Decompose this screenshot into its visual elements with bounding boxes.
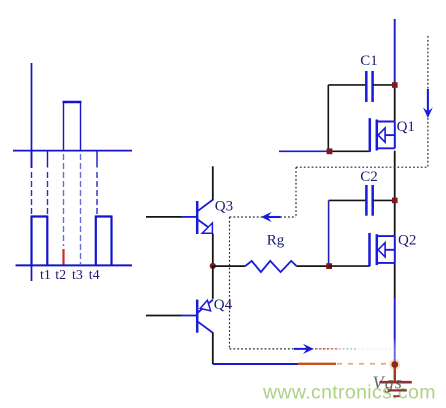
svg-text:Q3: Q3: [215, 199, 233, 215]
svg-text:Q2: Q2: [398, 233, 416, 249]
node: C1-drain junction: [392, 82, 398, 88]
waveform bottom horizontal axis: [16, 264, 133, 266]
t2 dashed construction line: [63, 154, 65, 246]
t4 axis tick solid: [96, 151, 98, 168]
waveform top vertical axis: [31, 63, 33, 168]
node: Rg-C2-gate junction: [326, 263, 332, 269]
t1 axis tick solid: [47, 151, 49, 168]
transistor Q3 (NPN): [146, 166, 213, 266]
transistor Q4 (PNP): [146, 266, 213, 364]
wire: main vertical black Q1 source to Q2 drain: [394, 151, 396, 237]
svg-text:t4: t4: [89, 268, 100, 283]
wire: junction to Q2 gate (black): [329, 265, 370, 267]
watermark halo: [251, 374, 444, 406]
dotted feedback: left vertical: [229, 217, 231, 349]
wire: main vertical black above Q1: [394, 85, 396, 121]
svg-text:www.cntronics.com: www.cntronics.com: [262, 381, 436, 403]
bottom pulse 2: [95, 217, 113, 266]
dotted feedback: bottom horizontal: [230, 348, 359, 350]
ground lead (red-orange): [394, 364, 396, 381]
wire: resistor to gate junction (black): [297, 265, 329, 267]
t3 dashed construction line: [80, 154, 82, 264]
capacitor C2: [329, 185, 395, 266]
transistor Q1 (NMOS): [370, 118, 395, 152]
wire: gate drive net to resistor (black): [213, 265, 246, 267]
dotted feedback: mid horizontal: [230, 216, 297, 218]
svg-text:C2: C2: [360, 169, 378, 185]
waveform top horizontal axis: [13, 150, 132, 152]
svg-text:t2: t2: [55, 268, 66, 283]
waveform bottom vertical axis below: [31, 265, 33, 281]
svg-text:Q1: Q1: [397, 119, 415, 135]
node: ground junction: [389, 359, 400, 370]
wire: top supply vertical (blue): [394, 19, 396, 85]
t4 dashed construction line: [96, 172, 98, 215]
svg-text:Rg: Rg: [267, 232, 285, 248]
t2 red tick: [62, 249, 64, 265]
resistor Rg: [245, 261, 296, 272]
t1 dashed construction line: [47, 172, 49, 215]
faint orange dashes on wire under halo: [337, 363, 390, 365]
wire: gate junction to Q1 gate (black): [330, 150, 370, 152]
node: C2-drain junction: [392, 198, 398, 204]
t0 axis tick solid below top axis: [31, 151, 33, 168]
wire: low-side output to ground (blue): [213, 363, 300, 365]
wire: Q1 gate net (blue): [279, 150, 330, 152]
svg-text:t3: t3: [72, 268, 83, 283]
wire: Q2 source to ground (blue): [394, 298, 396, 364]
orange overlay on bottom wire (watermark tint): [298, 363, 336, 365]
transistor Q2 (NMOS): [370, 233, 395, 267]
dotted feedback: right vertical: [427, 36, 429, 167]
svg-text:C1: C1: [360, 53, 378, 69]
dotted feedback: upper horizontal: [296, 166, 428, 168]
t0 dashed construction line: [31, 172, 33, 215]
watermark halo upper band over wire: [333, 342, 395, 374]
arrow: right (bottom loop): [294, 344, 314, 354]
arrow: current down (right side): [423, 89, 433, 118]
node: Q3-Q4 emitter junction: [210, 263, 216, 269]
wire: main vertical black below Q2: [394, 263, 396, 298]
orange dots on dotted line (watermark tint): [316, 348, 338, 350]
top pulse: [63, 102, 82, 151]
svg-text:t1: t1: [40, 268, 51, 283]
dotted feedback: faded tail under halo: [358, 348, 391, 350]
dotted feedback: mid vertical: [295, 167, 297, 217]
capacitor C1: [328, 71, 394, 151]
arrow: left (gate loop): [261, 212, 281, 222]
bottom pulse 1: [31, 217, 49, 266]
node: Q1 gate junction: [327, 148, 333, 154]
ground symbol: [379, 382, 411, 396]
